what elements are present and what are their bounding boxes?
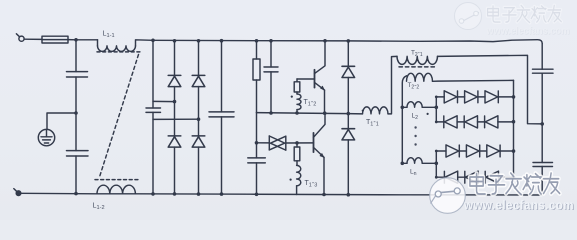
- diode D12c: [485, 171, 498, 183]
- node column A top: [435, 96, 438, 99]
- wire row D11 to rail: [500, 150, 513, 152]
- winding Ln: [402, 158, 436, 164]
- label L1-1: [103, 29, 115, 40]
- wire AC tap upper: [153, 100, 175, 102]
- outer loop right vertical: [541, 44, 543, 70]
- node L2 column: [435, 106, 439, 110]
- node Ln rail: [401, 162, 405, 166]
- capacitor C2: [67, 151, 89, 194]
- node Q2 emitter bottom: [322, 193, 326, 197]
- node L2 rail: [401, 106, 405, 110]
- node bus left corner: [151, 39, 155, 43]
- label Ln: [410, 169, 417, 177]
- node C5 bottom: [255, 193, 259, 197]
- node X-cap bottom: [151, 192, 155, 196]
- resistor R2 base Q1: [294, 79, 300, 94]
- node Q1 collector bus: [323, 39, 327, 43]
- wire lower-left branch: [256, 113, 258, 143]
- transistor Q1: [297, 41, 325, 113]
- resistor R3 base Q2: [294, 143, 300, 166]
- winding T1-3: [297, 165, 301, 194]
- node rail row4: [512, 175, 516, 179]
- transformer primary T2-1: [397, 55, 542, 124]
- label T1-3: [305, 180, 318, 189]
- node mid diode column: [347, 112, 351, 116]
- wire row D11 lead: [436, 150, 446, 152]
- node C3 top: [220, 39, 224, 43]
- svg-text:Ln: Ln: [410, 169, 417, 177]
- node bus D1: [173, 39, 177, 43]
- inductor L1-2: [97, 185, 135, 194]
- diode D2 bridge upper-right: [192, 41, 205, 136]
- wire fuse to junction: [68, 39, 98, 41]
- capacitor C5: [248, 143, 265, 195]
- svg-text:T2-1: T2-1: [411, 50, 423, 58]
- svg-text:T1-2: T1-2: [304, 99, 317, 108]
- diode D11a: [446, 145, 466, 157]
- node AC tap lower: [197, 117, 201, 121]
- node column B bottom: [435, 176, 438, 179]
- node T1-2 bottom: [295, 111, 299, 115]
- right rail secondary: [513, 80, 515, 177]
- diode D9a: [444, 91, 464, 103]
- label T1-1: [366, 119, 379, 128]
- node D8 bottom: [347, 193, 351, 197]
- winding L2: [402, 102, 436, 108]
- diode D12a: [444, 171, 464, 183]
- node Q2 base tap: [295, 141, 299, 145]
- node ground tap: [74, 111, 78, 115]
- svg-text:L1-1: L1-1: [103, 29, 115, 40]
- label T2-1: [411, 50, 423, 58]
- inductor L1-1: [98, 40, 154, 52]
- node column A bottom: [435, 121, 438, 124]
- node C3 bottom: [220, 192, 224, 196]
- node Ln column: [435, 162, 439, 166]
- node rail row3: [512, 149, 516, 153]
- capacitor C4: [264, 41, 278, 113]
- svg-text:T1-3: T1-3: [305, 180, 318, 189]
- label T2-2: [408, 82, 420, 90]
- wire row D12 to rail: [499, 176, 514, 178]
- capacitor C7: [533, 163, 553, 196]
- svg-text:T2-2: T2-2: [408, 82, 420, 90]
- diode D11c: [487, 145, 500, 157]
- wire left vertical upper: [75, 40, 77, 72]
- winding T1-2: [297, 94, 301, 113]
- wire row D10 to rail: [498, 121, 514, 123]
- diode D3 bridge lower-left: [168, 136, 181, 194]
- wire AC tap lower: [153, 118, 199, 120]
- diode D10a: [444, 116, 464, 128]
- node R1 top: [255, 39, 259, 43]
- svg-text:www.elecfans.com: www.elecfans.com: [486, 26, 570, 37]
- wire bottom bus: [21, 193, 542, 195]
- wire row D9 to rail: [498, 96, 513, 98]
- winding T1-1: [363, 56, 398, 114]
- wire X-cap vertical upper: [152, 40, 154, 108]
- node Q1 emitter mid: [323, 111, 327, 115]
- core coupling dashed diagonal: [100, 55, 139, 178]
- node bottom left vertical: [74, 192, 78, 196]
- svg-text:L2: L2: [412, 113, 419, 121]
- terminal input bottom: [14, 189, 21, 196]
- svg-text:L1-2: L1-2: [93, 201, 105, 212]
- diode D7 upper snubber: [342, 41, 355, 129]
- watermark text dianzifashaoyou: [470, 173, 560, 194]
- diode D8 lower snubber: [342, 129, 355, 195]
- polarity dot T1-3: [290, 179, 292, 181]
- diode D4 bridge lower-right: [192, 136, 205, 194]
- watermark url text: [463, 197, 575, 213]
- ground earth symbol: [38, 129, 54, 145]
- watermark top-right faint: [455, 3, 571, 38]
- wire ground branch: [47, 113, 76, 129]
- ellipsis dots repetition: [414, 126, 416, 145]
- transistor Q2: [314, 113, 326, 194]
- label L2: [412, 113, 419, 121]
- svg-text:www.elecfans.com: www.elecfans.com: [463, 197, 574, 212]
- wire mid rail: [257, 113, 363, 114]
- node junction fuse/vertical: [74, 38, 78, 42]
- wire to diode pair: [257, 142, 270, 144]
- polarity dot T1-2: [291, 96, 293, 98]
- diode D10c: [485, 116, 498, 128]
- core dashes L1-2: [95, 179, 140, 181]
- node D4 bottom: [197, 192, 201, 196]
- wire top bus: [153, 40, 542, 44]
- node C4 bottom: [269, 111, 273, 115]
- label T1-2: [304, 99, 317, 108]
- capacitor C3 filter: [209, 41, 234, 194]
- wire row D10 lead: [436, 121, 444, 123]
- polarity dot L2: [427, 113, 429, 115]
- diode D10b: [464, 116, 484, 128]
- diode D1 bridge upper-left: [168, 41, 181, 136]
- diode D9c: [485, 91, 498, 103]
- wire row D12 lead: [436, 176, 444, 178]
- transformer secondary T2-2: [402, 73, 513, 163]
- diode D9b: [465, 91, 485, 103]
- node diode pair tap: [255, 141, 259, 145]
- node D7 bus: [347, 39, 351, 43]
- node D3 bottom: [173, 192, 177, 196]
- core dashes L1-1: [97, 51, 140, 53]
- polarity dot T1-1: [362, 110, 364, 112]
- node rail row1: [512, 95, 516, 99]
- diode D12b: [465, 171, 485, 183]
- wire row D9 lead: [436, 96, 444, 98]
- node column B top: [435, 150, 438, 153]
- wire node column A: [435, 97, 437, 122]
- capacitor C1: [67, 72, 88, 151]
- node bus D2: [197, 39, 201, 43]
- watermark logo circle: [430, 178, 466, 214]
- diode pair D5 D6 back-to-back: [269, 136, 286, 150]
- fuse F1: [42, 36, 68, 43]
- wire diode pair to Q2 base: [286, 142, 314, 144]
- terminal input top: [16, 34, 24, 42]
- capacitor C6: [533, 69, 554, 162]
- node AC tap upper: [173, 100, 177, 104]
- resistor R1: [253, 41, 260, 113]
- capacitor CX across line: [146, 108, 161, 194]
- transformer core dashes: [399, 66, 437, 68]
- wire top-left: [24, 38, 42, 40]
- diode D11b: [466, 145, 486, 157]
- label L1-2: [93, 201, 105, 212]
- node rail row2: [512, 120, 516, 124]
- wire node column B: [435, 151, 437, 177]
- svg-text:T1-1: T1-1: [366, 119, 379, 128]
- node C4 top: [269, 39, 273, 43]
- node primary return: [540, 122, 544, 126]
